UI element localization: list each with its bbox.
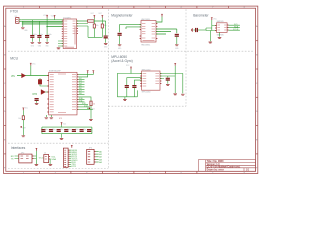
wire U3 bottom to ground bbox=[219, 32, 221, 36]
wire L1 out bbox=[94, 20, 106, 22]
frame row ticks right bbox=[256, 41, 258, 154]
ground U4 a bbox=[45, 118, 49, 119]
ground J2 bbox=[49, 165, 53, 166]
wire cap C18 top bbox=[160, 76, 168, 79]
wire vcc right stem bbox=[160, 66, 175, 93]
vcc U2 bbox=[161, 14, 163, 16]
capacitor C8 small bbox=[35, 99, 39, 101]
ground C18 bbox=[166, 84, 170, 85]
vcc C bbox=[93, 15, 95, 17]
value labels R1 R2 bbox=[96, 25, 107, 27]
wire U4 TX pullup to vcc bbox=[78, 73, 87, 77]
wire R3 chain bbox=[22, 110, 24, 135]
svg-text:100n: 100n bbox=[48, 34, 52, 36]
wire C7 left lead bbox=[193, 29, 195, 31]
section dividers (dashed) bbox=[8, 9, 253, 168]
decoupling bank rails bbox=[42, 127, 92, 134]
net labels right of U3 bbox=[233, 24, 239, 31]
svg-text:100n: 100n bbox=[52, 129, 56, 131]
wire cap tap 1 bbox=[31, 20, 33, 35]
wire U2 left pins bbox=[120, 24, 141, 32]
wire gnd stem bbox=[124, 97, 126, 99]
svg-text:Title: Flip_MWC: Title: Flip_MWC bbox=[207, 160, 225, 163]
capacitor C4 right bbox=[104, 36, 108, 38]
wire X1 shield to ground bbox=[22, 21, 24, 27]
value labels bank bbox=[44, 129, 86, 131]
capacitor C9 bbox=[41, 130, 45, 132]
title block row lines bbox=[206, 160, 256, 172]
ground AD0 bbox=[181, 94, 185, 95]
wire C18 down bbox=[167, 81, 169, 84]
IC U5 MPU6050 bbox=[140, 71, 161, 90]
connector X1 (USB) bbox=[16, 18, 22, 24]
capacitor C6 bbox=[175, 34, 179, 36]
ground vcc rail bbox=[173, 94, 177, 95]
connector J2 bbox=[44, 155, 49, 163]
wire JP1 to junction bbox=[34, 151, 37, 165]
svg-text:Drawn by: emsr: Drawn by: emsr bbox=[207, 169, 224, 171]
diode D2 bbox=[41, 90, 46, 95]
frame row ticks left bbox=[4, 41, 6, 154]
wire C2 lead bbox=[38, 38, 40, 42]
ferrite bead L1 bbox=[88, 20, 95, 22]
resistor R1 bbox=[93, 24, 95, 28]
IC U4 ATMEGA328 bbox=[47, 72, 78, 115]
pins JP4 right bbox=[94, 151, 96, 162]
wire C7 right lead bbox=[198, 29, 206, 31]
wire vcc to U2 bbox=[156, 17, 162, 22]
capacitor C13 bbox=[72, 130, 76, 132]
net labels H1 bbox=[72, 150, 79, 168]
svg-text:10n: 10n bbox=[40, 34, 43, 36]
wire USB VBUS bbox=[22, 19, 63, 21]
capacitor C1 bbox=[30, 36, 34, 38]
ground under X1 bbox=[21, 28, 25, 29]
divider: magnetometer / barometer, MPU right bbox=[185, 9, 187, 106]
divider: MPU bottom bbox=[108, 105, 186, 107]
wire bank ground stem bbox=[61, 134, 63, 138]
svg-text:SDA: SDA bbox=[51, 158, 56, 161]
resistor R2 bbox=[101, 24, 103, 28]
LED D1 bbox=[22, 73, 26, 78]
vcc D bbox=[101, 15, 103, 17]
svg-text:10k: 10k bbox=[104, 25, 107, 27]
IC U2 HMC5883L bbox=[140, 21, 158, 43]
svg-text:100n: 100n bbox=[75, 129, 79, 131]
resistor R3 bbox=[22, 116, 24, 120]
divider: Interfaces bottom bbox=[8, 168, 108, 170]
svg-text:Magnetometer: Magnetometer bbox=[111, 14, 133, 18]
wire U5 left caps bbox=[127, 78, 142, 85]
wire R1 R2 bottoms bbox=[94, 28, 102, 37]
svg-text:DTR: DTR bbox=[72, 166, 77, 168]
wire U2 right pins bbox=[156, 29, 177, 34]
annotation GND texts magnetometer bbox=[118, 48, 179, 50]
wire USB D+ bbox=[22, 23, 63, 25]
junction dot bbox=[46, 26, 47, 27]
net labels U4 right bbox=[79, 78, 90, 110]
capacitor C16 bbox=[125, 86, 129, 88]
pins JP1 right bbox=[32, 156, 34, 159]
svg-text:VIN: VIN bbox=[11, 76, 15, 78]
svg-text:XCLR: XCLR bbox=[233, 29, 239, 31]
capacitor C11 bbox=[57, 130, 61, 132]
divider: left column / middle column bbox=[107, 9, 109, 168]
connector H1 tall header bbox=[63, 148, 68, 167]
vcc B bbox=[54, 15, 56, 17]
junction dot R4 bbox=[89, 108, 91, 110]
svg-text:10k: 10k bbox=[18, 118, 21, 120]
wire C3 lead bbox=[46, 38, 48, 42]
wire vcc A down bbox=[46, 18, 48, 35]
annotation texts FTDI bbox=[43, 13, 103, 17]
wire vcc down and to U3 bbox=[206, 20, 217, 31]
wire C6 down bbox=[176, 37, 178, 45]
wire vcc B down bbox=[54, 18, 56, 20]
wire U1 to L1 bbox=[77, 20, 88, 22]
junction dot reset bbox=[20, 126, 22, 128]
wires JP4 right bbox=[96, 151, 99, 162]
vcc bar bbox=[211, 18, 213, 20]
wire USB sense bbox=[22, 22, 63, 24]
ground U1 lower-left bbox=[57, 48, 61, 49]
capacitor C17 bbox=[132, 86, 136, 88]
svg-text:100n: 100n bbox=[33, 34, 37, 36]
ground MPU rail bbox=[123, 100, 127, 101]
svg-text:Barometer: Barometer bbox=[193, 14, 209, 18]
ground C3 bbox=[45, 42, 49, 43]
ground C1 bbox=[31, 42, 35, 43]
ground R3 bbox=[22, 136, 26, 137]
wire vcc to U5 bbox=[130, 69, 132, 73]
wire R4 down bbox=[90, 106, 92, 119]
frame inner border bbox=[6, 8, 256, 171]
ground C8 bbox=[35, 103, 39, 104]
svg-text:100n: 100n bbox=[67, 129, 71, 131]
svg-text:MCU: MCU bbox=[10, 56, 18, 60]
ground U3 bbox=[218, 37, 222, 38]
net labels JP4 bbox=[99, 150, 102, 164]
divider: row 1 / row 2 bbox=[8, 50, 253, 52]
vcc H1 bbox=[71, 145, 73, 147]
page background bbox=[0, 0, 262, 178]
frame column ticks bottom bbox=[39, 171, 197, 173]
svg-text:100n: 100n bbox=[83, 129, 87, 131]
U1 left lower pins wires bbox=[58, 41, 63, 46]
wire Y1 bbox=[40, 78, 49, 86]
wire USBDM USBDP right bbox=[77, 24, 103, 38]
divider: MCU / Interfaces bbox=[8, 142, 108, 144]
vcc U5 bbox=[130, 67, 132, 69]
svg-text:(Accel & Gyro): (Accel & Gyro) bbox=[111, 59, 132, 63]
frame outer border bbox=[4, 6, 258, 173]
title block texts bbox=[207, 160, 250, 171]
wire U4 RX pullup to vcc bbox=[78, 73, 93, 74]
svg-text:Interfaces: Interfaces bbox=[11, 146, 26, 150]
wire U4 bottom grounds bbox=[46, 115, 51, 117]
frame column digits bbox=[23, 7, 246, 174]
wire U5 right to AD0 bbox=[160, 74, 183, 94]
vcc RX pullup bbox=[92, 71, 94, 73]
svg-text:100n: 100n bbox=[60, 129, 64, 131]
ground U4 b bbox=[50, 118, 54, 119]
capacitor C5 bbox=[118, 33, 122, 35]
wire U4 D9 to R4 bbox=[78, 97, 91, 101]
ground C7 left bbox=[192, 28, 193, 32]
wire C8 lead bbox=[36, 101, 38, 103]
wire C5 down bbox=[119, 36, 121, 45]
svg-text:BMP085: BMP085 bbox=[217, 34, 224, 36]
pins J2 right bbox=[49, 157, 51, 160]
vcc A bbox=[46, 15, 48, 17]
ground C5 bbox=[118, 45, 122, 46]
wire C4 top bbox=[105, 21, 107, 35]
svg-text:1k: 1k bbox=[93, 104, 95, 106]
wire J2 gnd bbox=[49, 159, 52, 164]
wires U4 right pins bbox=[78, 79, 93, 109]
frame column ticks top bbox=[39, 6, 228, 8]
ground JP1 bbox=[35, 165, 39, 166]
wires H1 right bbox=[70, 150, 72, 166]
capacitor C18 bbox=[166, 78, 170, 80]
ground below rail bbox=[209, 42, 213, 43]
ground C4 bbox=[104, 43, 108, 44]
wire U5 pin1 loop bbox=[117, 74, 141, 97]
vcc right bbox=[174, 63, 176, 65]
title block outline bbox=[198, 160, 255, 172]
vcc near top bbox=[30, 63, 32, 65]
ground C2 bbox=[38, 42, 42, 43]
IC U3 BMP085 bbox=[215, 23, 228, 33]
capacitor C2 bbox=[37, 36, 41, 38]
wire vcc bank stem bbox=[61, 125, 63, 127]
resistor R4 bbox=[90, 101, 92, 106]
vcc TX pullup bbox=[87, 71, 89, 73]
wire U3 right nets bbox=[229, 25, 240, 30]
wire vcc C stem bbox=[93, 18, 95, 24]
wire to JP1 bbox=[15, 156, 19, 159]
vcc JP1 bbox=[36, 148, 38, 150]
svg-text:10k: 10k bbox=[96, 25, 99, 27]
wire cap tap 2 bbox=[38, 21, 40, 35]
capacitor C3 bbox=[45, 36, 49, 38]
frame row letters bbox=[4, 25, 258, 170]
capacitor C14 bbox=[80, 130, 84, 132]
wire gnd rail down bbox=[209, 31, 211, 42]
connector JP4 header bbox=[87, 149, 94, 164]
capacitor C7 (horizontal) bbox=[196, 28, 198, 32]
ground C6 bbox=[175, 45, 179, 46]
pins H1 right bbox=[68, 150, 69, 166]
IC U1 FT232RL bbox=[62, 19, 78, 49]
wire LED rail bbox=[17, 75, 49, 77]
capacitor C12 bbox=[64, 130, 68, 132]
svg-text:100n: 100n bbox=[44, 129, 48, 131]
capacitor C15 bbox=[87, 130, 91, 132]
svg-text:FTDI: FTDI bbox=[10, 10, 18, 14]
value labels caps bbox=[33, 34, 51, 36]
resonator Y1 bbox=[38, 80, 42, 85]
svg-text:CC-BY-SA Multiwii Copter proj.: CC-BY-SA Multiwii Copter proj. bbox=[207, 166, 241, 169]
wire D2 to U4 bbox=[46, 91, 49, 93]
wire C1 lead bbox=[31, 38, 33, 42]
svg-text:MPU-6050: MPU-6050 bbox=[142, 91, 151, 93]
net labels left bbox=[11, 156, 15, 161]
net labels J2 bbox=[51, 156, 56, 161]
ground bank bbox=[60, 138, 64, 139]
wire C4 lead bbox=[105, 38, 107, 43]
wire MPU bottom rail bbox=[117, 88, 137, 97]
svg-text:led: led bbox=[92, 108, 94, 110]
vcc bank bbox=[61, 123, 63, 125]
annotation GND texts FTDI bbox=[24, 30, 108, 49]
wire vcc D stem bbox=[101, 18, 103, 24]
svg-text:DTR: DTR bbox=[33, 94, 38, 96]
capacitor C10 bbox=[49, 130, 53, 132]
connector JP1 bbox=[19, 154, 32, 163]
wire 3V3OUT bbox=[47, 26, 63, 28]
wire USB D- bbox=[22, 20, 63, 22]
wire vcc down to rail bbox=[30, 66, 32, 76]
svg-text:VCC: VCC bbox=[39, 158, 44, 160]
vcc reset pullup bbox=[22, 108, 24, 110]
ground R4 bbox=[89, 119, 93, 120]
svg-text:HMC5883L: HMC5883L bbox=[141, 45, 150, 47]
